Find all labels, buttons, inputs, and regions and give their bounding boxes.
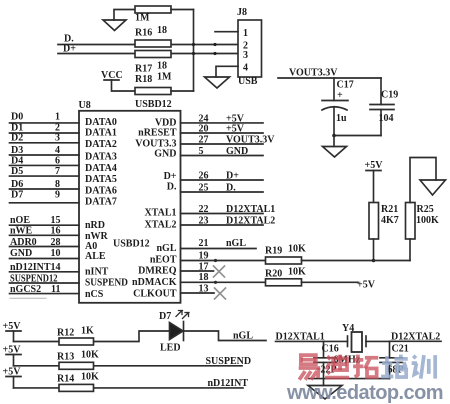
svg-text:10K: 10K [81,372,99,383]
svg-text:C21: C21 [392,344,409,355]
svg-text:R18: R18 [135,74,152,85]
svg-text:J8: J8 [237,7,247,18]
watermark red char 拓 [353,355,378,377]
svg-text:104: 104 [379,113,394,124]
svg-text:D+: D+ [164,171,177,182]
wire D12XTAL1 to crystal [276,340,348,342]
svg-text:10: 10 [51,248,61,259]
svg-text:nDMACK: nDMACK [132,277,177,288]
svg-text:14: 14 [51,262,61,273]
power VCC [104,80,135,91]
wire rail3 [14,387,244,389]
resistor R21 4K7 [369,203,379,240]
ground right of R25 [420,180,446,195]
svg-text:1: 1 [55,112,60,123]
left control labels and numbers [10,215,58,295]
resistor R17 [135,51,171,58]
svg-text:VOUT3.3V: VOUT3.3V [226,135,275,146]
svg-text:18: 18 [157,25,167,36]
svg-text:SUSPEND: SUSPEND [206,356,252,367]
svg-text:+5V: +5V [365,160,384,171]
svg-text:DATA3: DATA3 [85,151,117,162]
svg-text:R17: R17 [135,64,152,75]
svg-text:23: 23 [199,216,209,227]
resistor R14 10K [59,384,94,391]
LED D7 [170,311,190,341]
capacitor C19 (104) [370,78,394,136]
svg-text:1K: 1K [81,326,94,337]
resistor R13 10K [59,362,94,369]
svg-text:nD12INT: nD12INT [10,262,51,273]
svg-text:DATA6: DATA6 [85,186,117,197]
no-connect X on pin13 [215,288,226,299]
svg-text:GND: GND [154,149,176,160]
wire LED to nGL [184,331,267,341]
svg-text:20: 20 [199,124,209,135]
svg-text:1M: 1M [135,13,150,24]
svg-text:nRESET: nRESET [138,128,177,139]
junction dots on D- and D+ [192,43,217,55]
svg-text:+: + [337,90,343,101]
svg-text:13: 13 [199,284,209,295]
wire D- [58,44,238,46]
right pin numbers [199,113,209,294]
svg-text:1: 1 [243,28,248,39]
wire R21 bottom [373,239,375,261]
svg-text:9: 9 [55,190,60,201]
wire rail1 [14,331,170,342]
wire J8 pin1 stub [215,31,238,33]
svg-text:4K7: 4K7 [381,215,399,226]
svg-text:11: 11 [51,284,60,295]
svg-text:7: 7 [55,166,60,177]
svg-text:SUSPEND: SUSPEND [85,278,128,289]
wire VOUT3.3V rail [278,77,381,79]
IC U8 USBD12 box [79,111,181,303]
wire vertical joining 1M, D-, D+, R18 [193,10,195,92]
resistor R19 10K on pin19 line [181,257,411,264]
svg-text:18: 18 [157,61,167,72]
svg-text:6: 6 [55,155,60,166]
capacitor C17 (polarized 1u) [322,78,348,136]
svg-text:R25: R25 [417,204,434,215]
left data bus wires D0-D7 [10,123,80,203]
svg-text:27: 27 [199,135,209,146]
svg-text:D.: D. [226,183,236,194]
watermark red char 迪 [325,355,349,378]
svg-text:1M: 1M [157,72,172,83]
svg-text:www.edatop.com: www.edatop.com [286,382,443,404]
svg-text:10K: 10K [81,350,99,361]
svg-text:U8: U8 [79,100,91,111]
svg-text:nRD: nRD [85,220,105,231]
svg-text:XTAL1: XTAL1 [144,208,176,219]
svg-text:ALE: ALE [85,251,106,262]
wire R25 bottom [409,239,411,261]
svg-text:USBD12: USBD12 [135,99,172,110]
wire tap down to C16 [323,341,325,357]
resistor R12 1K [59,338,94,345]
capacitor C16 22P [314,358,337,379]
svg-text:10K: 10K [288,267,306,278]
right pin stub wires [181,123,264,293]
svg-text:26: 26 [199,171,209,182]
svg-text:3: 3 [243,50,248,61]
ground at J8 [205,77,230,88]
svg-text:1u: 1u [336,113,347,124]
svg-text:nEOT: nEOT [150,255,177,266]
svg-text:3: 3 [55,132,60,143]
svg-text:DATA0: DATA0 [85,117,117,128]
svg-text:R12: R12 [57,328,74,339]
svg-text:D7: D7 [11,190,23,201]
crystal Y4 6MHz [348,332,390,352]
resistor R18 [135,88,194,95]
svg-text:ADR0: ADR0 [10,237,37,248]
left control wires [10,225,80,298]
svg-text:4: 4 [243,63,248,74]
svg-text:D12XTAL2: D12XTAL2 [226,216,275,227]
wire D12XTAL2 [390,340,442,342]
svg-text:D12XTAL1: D12XTAL1 [226,204,275,215]
svg-text:5: 5 [199,146,204,157]
svg-text:R16: R16 [135,28,152,39]
svg-text:DATA5: DATA5 [85,174,117,185]
resistor R16 [135,40,171,47]
svg-text:VOUT3.3V: VOUT3.3V [289,68,338,79]
svg-text:R19: R19 [265,246,282,257]
right net labels [226,113,275,248]
svg-text:D0: D0 [11,112,23,123]
wire crystal caps bottom rail [309,378,390,380]
watermark blue char 训 [412,355,436,379]
svg-text:C16: C16 [322,344,339,355]
svg-text:D6: D6 [11,179,23,190]
resistor R20 10K on pin18 line [181,279,359,286]
watermark red char 易 [299,355,320,380]
IC left pin names [85,117,128,300]
svg-text:R13: R13 [57,352,74,363]
svg-text:nWE: nWE [10,225,33,236]
wire D+ [58,53,238,55]
svg-text:25: 25 [199,183,209,194]
svg-text:CLKOUT: CLKOUT [133,288,177,299]
capacitor C21 68P [380,358,403,379]
wire J8 pin4 to ground [216,66,238,77]
svg-text:R14: R14 [57,374,74,385]
svg-text:C17: C17 [337,80,354,91]
svg-text:DMREQ: DMREQ [138,266,177,277]
svg-text:8: 8 [55,179,60,190]
svg-text:GND: GND [226,146,248,157]
svg-text:nCS: nCS [85,289,104,300]
no-connect X on pin17 [214,266,225,277]
wire rail2 [14,365,243,367]
svg-text:C19: C19 [381,90,398,101]
svg-text:D+: D+ [226,171,239,182]
junction dots pins 19/18 [214,259,217,284]
svg-text:D5: D5 [11,166,23,177]
svg-text:22: 22 [199,204,209,215]
wire R25 top to ground [410,158,436,203]
svg-text:D7: D7 [159,311,171,322]
ground below C17/C19 [323,136,347,158]
svg-text:nGCS2: nGCS2 [10,284,41,295]
svg-text:nGL: nGL [226,238,246,249]
svg-text:R20: R20 [265,269,282,280]
svg-text:USB: USB [238,76,258,87]
svg-text:nD12INT: nD12INT [208,378,249,389]
svg-text:DATA2: DATA2 [85,139,117,150]
ground near 1M pull resistor [103,10,135,31]
wire cap bottoms [334,135,381,137]
svg-text:21: 21 [199,238,209,249]
svg-text:nINT: nINT [85,267,109,278]
svg-text:GND: GND [10,248,32,259]
svg-text:17: 17 [199,262,209,273]
svg-text:USBD12: USBD12 [113,239,150,250]
svg-text:DATA1: DATA1 [85,128,117,139]
svg-text:XTAL2: XTAL2 [144,220,176,231]
svg-text:VCC: VCC [101,70,123,81]
svg-text:DATA7: DATA7 [85,196,117,207]
svg-text:D2: D2 [11,132,23,143]
svg-text:Y4: Y4 [342,323,354,334]
svg-text:18: 18 [199,272,209,283]
connector J8 [238,20,262,77]
resistor 1M (top pull) [135,6,194,13]
svg-text:16: 16 [51,225,61,236]
svg-text:DATA4: DATA4 [85,163,117,174]
ground below crystal [308,379,342,399]
svg-text:10K: 10K [288,244,306,255]
svg-text:LED: LED [160,343,181,354]
wire tap down to C21 [389,341,391,358]
svg-text:D.: D. [167,182,177,193]
left data labels and pin numbers [11,112,23,201]
svg-text:nGL: nGL [233,331,253,342]
watermark blue char 培 [381,355,408,377]
svg-text:R21: R21 [381,204,398,215]
svg-text:28: 28 [51,237,61,248]
svg-text:D4: D4 [11,155,23,166]
svg-text:nGL: nGL [156,243,176,254]
resistor R25 100K [406,203,416,240]
IC right pin names [132,117,177,299]
svg-text:100K: 100K [416,215,439,226]
svg-text:+5V: +5V [357,280,376,291]
svg-text:+5V: +5V [226,124,245,135]
